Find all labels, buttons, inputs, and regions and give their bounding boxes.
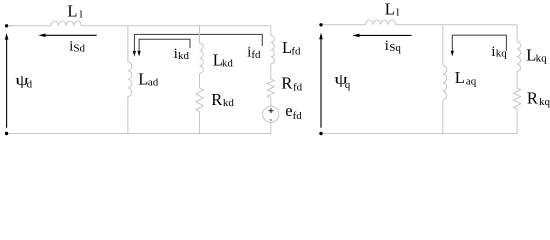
svg-text:d: d: [27, 79, 33, 91]
source polarity plus: [269, 108, 274, 113]
svg-text:aq: aq: [466, 75, 477, 87]
inductor L_fd / resistor R_fd / source e_fd branch: [263, 26, 279, 134]
svg-text:q: q: [345, 79, 351, 91]
svg-text:l: l: [80, 8, 83, 20]
svg-text:R: R: [527, 89, 538, 108]
wire top-left d: [8, 25, 51, 27]
source polarity minus: [270, 119, 272, 121]
svg-text:fd: fd: [293, 81, 303, 93]
inductor L_aq branch: [443, 25, 447, 134]
svg-text:R: R: [211, 90, 222, 109]
hook arrow i_fd: [133, 34, 262, 56]
inductor L_l (q): [366, 20, 396, 25]
hook arrow i_kq: [451, 35, 507, 56]
svg-text:L: L: [455, 68, 465, 87]
svg-text:e: e: [285, 101, 292, 120]
svg-text:i: i: [385, 38, 389, 54]
inductor L_ad branch: [128, 26, 132, 134]
node bottom-left q: [319, 132, 322, 135]
svg-text:Sq: Sq: [389, 42, 401, 54]
svg-text:L: L: [138, 69, 148, 88]
hook arrow i_kd: [138, 39, 191, 56]
svg-text:fd: fd: [291, 46, 301, 58]
svg-text:l: l: [396, 7, 399, 19]
svg-text:kq: kq: [536, 53, 548, 65]
wire bottom d: [8, 133, 271, 135]
svg-text:R: R: [281, 73, 292, 92]
svg-text:Sd: Sd: [73, 42, 85, 54]
svg-text:kd: kd: [178, 50, 190, 62]
svg-text:fd: fd: [251, 49, 261, 61]
svg-text:ad: ad: [148, 76, 159, 88]
inductor L_l (d): [51, 21, 82, 26]
wire bottom q: [323, 133, 517, 135]
inductor L_kq / resistor R_kq branch: [513, 25, 520, 134]
current arrow i_Sq: [352, 34, 411, 38]
wire top-left q: [323, 24, 366, 26]
inductor L_kd / resistor R_kd branch: [196, 26, 203, 134]
wire top-right d: [81, 25, 270, 27]
wire top-right q: [396, 24, 517, 26]
svg-text:kd: kd: [223, 97, 235, 109]
svg-text:L: L: [385, 0, 395, 19]
svg-text:L: L: [67, 1, 77, 20]
flux arrow psi_q: [319, 33, 323, 128]
current arrow i_Sd: [38, 34, 96, 38]
svg-text:kd: kd: [222, 58, 234, 70]
node top-left d: [5, 24, 8, 27]
node bottom-left d: [5, 132, 8, 135]
node top-left q: [319, 23, 322, 26]
svg-text:kq: kq: [539, 96, 550, 108]
flux arrow psi_d: [5, 33, 9, 128]
svg-text:kq: kq: [496, 48, 508, 60]
svg-text:fd: fd: [293, 110, 303, 122]
